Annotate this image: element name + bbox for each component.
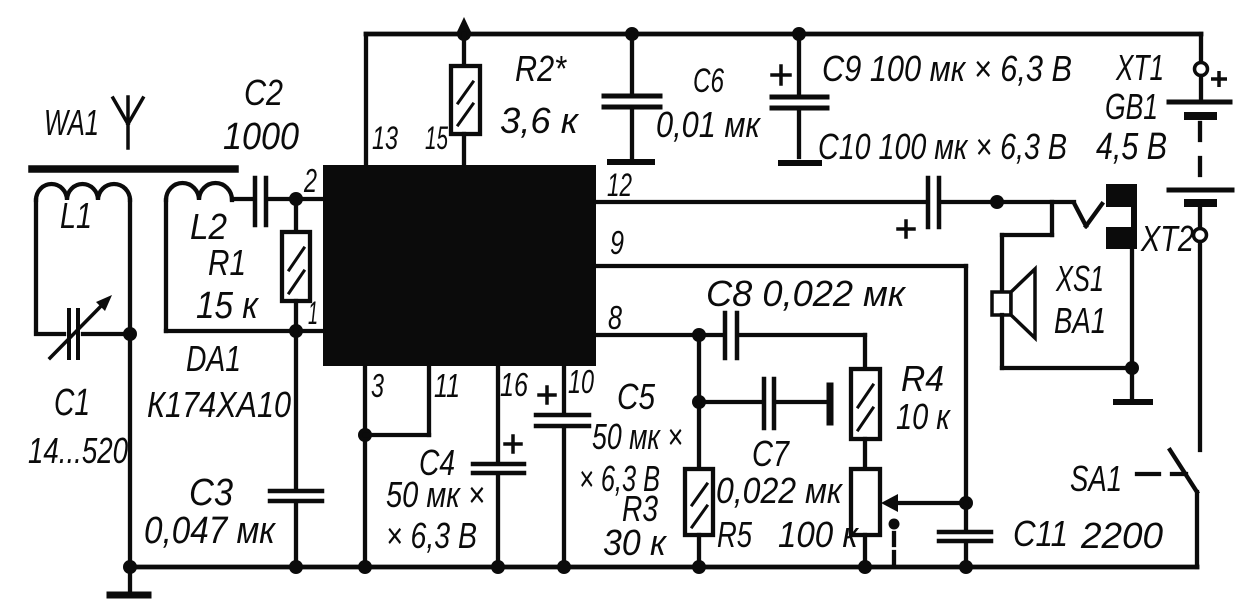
- resistor R1: [282, 199, 310, 331]
- wire pin 3 down to bus: [363, 366, 367, 567]
- wire ground bus bottom: [130, 565, 1197, 570]
- svg-text:1000: 1000: [223, 116, 299, 158]
- node pin1 junction: [289, 324, 303, 338]
- svg-text:10 к: 10 к: [896, 396, 952, 437]
- inductor L2: [166, 183, 323, 331]
- svg-text:BA1: BA1: [1054, 300, 1106, 341]
- svg-text:XT2: XT2: [1140, 218, 1194, 259]
- svg-text:C7: C7: [752, 433, 791, 474]
- svg-text:50 мк ×: 50 мк ×: [592, 416, 683, 457]
- svg-text:GB1: GB1: [1105, 86, 1158, 127]
- node bus junctions: [123, 560, 973, 574]
- resistor R4: [851, 369, 880, 469]
- svg-text:3: 3: [371, 367, 384, 404]
- capacitor C7 branch: [692, 335, 830, 428]
- node pin3/pin11 junction: [358, 428, 372, 442]
- ferrite rod: [32, 165, 235, 173]
- svg-text:0,022 мк: 0,022 мк: [716, 470, 844, 511]
- svg-text:C1: C1: [54, 382, 90, 424]
- label XT1 plus: [1211, 71, 1227, 87]
- wire pin 8 line: [596, 333, 724, 337]
- svg-text:1: 1: [308, 295, 318, 331]
- capacitor C9: [772, 27, 827, 163]
- svg-text:14...520: 14...520: [28, 430, 128, 471]
- svg-text:C2: C2: [244, 72, 283, 113]
- svg-text:9: 9: [610, 224, 624, 261]
- svg-text:15 к: 15 к: [196, 285, 260, 327]
- svg-text:30 к: 30 к: [603, 522, 668, 563]
- jack XS1 spring contact: [1074, 203, 1102, 226]
- svg-text:R2*: R2*: [515, 48, 567, 89]
- node speaker ground junction: [1125, 361, 1139, 375]
- svg-text:C5: C5: [617, 376, 656, 417]
- wire L1 node to ground bus: [128, 334, 132, 567]
- capacitor C10 series: [898, 178, 1074, 237]
- svg-text:R4: R4: [901, 358, 944, 399]
- capacitor C2: [232, 178, 323, 225]
- node pin8 junction: [692, 328, 706, 342]
- svg-text:3,6 к: 3,6 к: [500, 100, 580, 141]
- svg-text:13: 13: [372, 120, 398, 156]
- svg-text:C9 100 мк × 6,3 В: C9 100 мк × 6,3 В: [822, 48, 1072, 89]
- svg-text:XT1: XT1: [1115, 47, 1164, 88]
- svg-text:2: 2: [303, 162, 317, 199]
- capacitor C5: [536, 366, 589, 567]
- svg-text:WA1: WA1: [44, 102, 99, 143]
- svg-text:100 к: 100 к: [778, 514, 860, 555]
- resistor R2: [451, 34, 480, 165]
- switch SA1: [1137, 450, 1197, 567]
- capacitor C1 variable: [50, 295, 130, 358]
- svg-text:4,5 В: 4,5 В: [1096, 126, 1167, 168]
- svg-text:50 мк ×: 50 мк ×: [386, 474, 485, 515]
- jack XS1 plug body: [1106, 184, 1137, 249]
- svg-text:DA1: DA1: [186, 338, 241, 379]
- svg-text:SA1: SA1: [1070, 458, 1122, 499]
- capacitor C6: [604, 27, 660, 162]
- svg-text:12: 12: [607, 167, 632, 203]
- ground speaker: [1116, 368, 1150, 402]
- svg-text:16: 16: [500, 366, 528, 403]
- battery GB1: [1169, 102, 1232, 228]
- wire branch to speaker: [1002, 202, 1052, 292]
- wire top supply bus: [366, 32, 1201, 37]
- capacitor C11: [939, 503, 991, 567]
- svg-text:0,01 мк: 0,01 мк: [656, 104, 762, 145]
- inductor L1: [36, 184, 130, 334]
- svg-text:C11: C11: [1013, 513, 1068, 554]
- svg-text:15: 15: [425, 120, 448, 156]
- svg-text:XS1: XS1: [1055, 258, 1104, 299]
- speaker BA1: [992, 269, 1132, 368]
- svg-text:C6: C6: [693, 62, 724, 100]
- svg-text:11: 11: [434, 367, 460, 404]
- mechanical link SA1 dashes: [889, 519, 900, 566]
- wire pin 11 link: [365, 366, 429, 435]
- node output junction: [990, 195, 1004, 209]
- svg-text:L1: L1: [60, 195, 92, 236]
- node pin2 junction: [289, 192, 303, 206]
- svg-text:L2: L2: [190, 206, 227, 247]
- node R2 top junction arrow: [456, 17, 472, 41]
- wire pin 9 line: [596, 266, 966, 503]
- svg-text:0,047 мк: 0,047 мк: [144, 510, 277, 552]
- capacitor C8: [725, 313, 865, 369]
- svg-text:C8 0,022 мк: C8 0,022 мк: [706, 273, 907, 314]
- antenna WA1 symbol: [113, 97, 143, 148]
- svg-text:R1: R1: [208, 242, 246, 283]
- capacitor C4: [473, 366, 524, 567]
- resistor R3: [685, 402, 713, 567]
- svg-text:× 6,3 В: × 6,3 В: [386, 515, 477, 556]
- svg-text:8: 8: [608, 299, 622, 336]
- svg-text:К174ХА10: К174ХА10: [147, 384, 291, 425]
- potentiometer R5: [851, 469, 966, 567]
- wire pin 12 output line: [596, 200, 926, 204]
- wire XT1 feed: [1199, 34, 1203, 62]
- wire pin 13 to top bus: [364, 34, 368, 165]
- node wiper junction: [959, 496, 973, 510]
- svg-text:C3: C3: [189, 472, 233, 514]
- terminal XT2: [1194, 229, 1207, 242]
- svg-text:R5: R5: [717, 514, 753, 555]
- terminal XT1: [1195, 63, 1208, 76]
- ground main: [110, 567, 148, 595]
- svg-text:10: 10: [568, 363, 594, 400]
- wire plug to ground node: [1130, 249, 1134, 368]
- svg-text:C10 100 мк × 6,3 В: C10 100 мк × 6,3 В: [818, 126, 1067, 167]
- op-amp U1 IC DA1 K174XA10 body: [323, 165, 596, 366]
- capacitor C3: [270, 331, 322, 567]
- node L1/C1 junction: [123, 327, 137, 341]
- svg-text:2200: 2200: [1080, 515, 1163, 556]
